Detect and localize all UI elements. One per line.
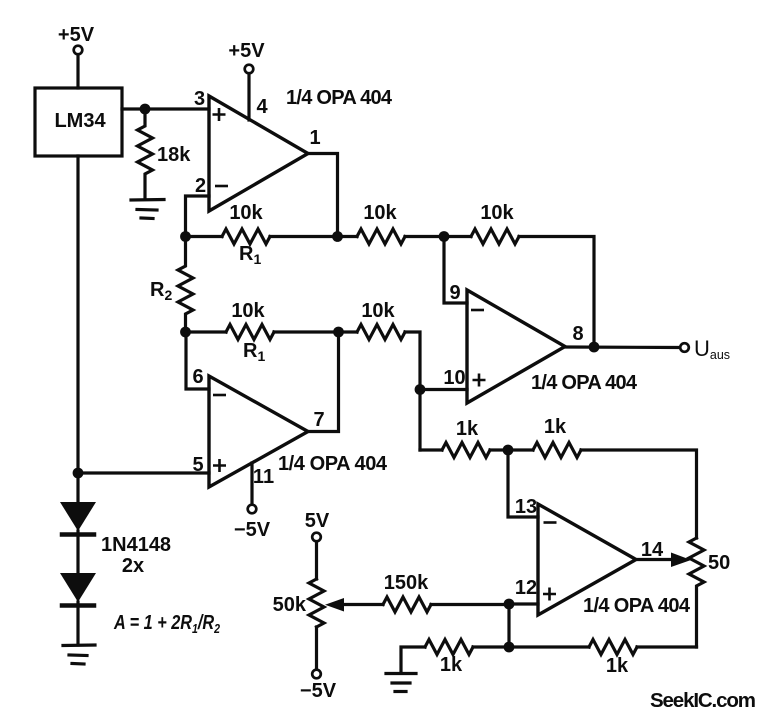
ground below diodes [63, 645, 95, 664]
svg-text:10k: 10k [231, 300, 265, 322]
svg-text:6: 6 [192, 366, 203, 388]
wire 150k to pin 12 node [431, 603, 509, 606]
potentiometer 50k element [309, 579, 324, 627]
svg-text:13: 13 [515, 496, 537, 518]
wire row3 left [420, 448, 442, 451]
node junction row2 (U1B feedback) [333, 327, 344, 338]
svg-text:11: 11 [253, 466, 274, 488]
svg-text:5V: 5V [305, 510, 330, 532]
svg-text:1/4 OPA 404: 1/4 OPA 404 [278, 453, 388, 475]
power terminal -5V (U1B pin 11) [248, 505, 257, 514]
wire row2 mid [274, 330, 357, 333]
wire U1C pin 9 stub [444, 237, 467, 304]
node junction row1 right (pin 9 net) [439, 231, 450, 242]
wire 150k to wiper arrow [343, 603, 383, 606]
diode D2 1N4148 [60, 573, 96, 645]
power terminal 5V (pot 50k top) [312, 533, 321, 542]
svg-text:1k: 1k [606, 655, 629, 677]
resistor 10k (U1C feedback) [471, 229, 519, 244]
svg-text:2x: 2x [122, 555, 144, 577]
svg-text:4: 4 [256, 96, 268, 118]
svg-text:SeekIC.com: SeekIC.com [650, 689, 756, 712]
wire row4 right to pot 50 bottom [637, 645, 697, 648]
wire pin12 node down to row4 [507, 604, 510, 647]
svg-text:1k: 1k [440, 654, 463, 676]
svg-text:R1: R1 [243, 340, 265, 364]
wire pot 50k bottom [315, 627, 318, 670]
wire row1 mid [270, 235, 357, 238]
node junction U1C output [589, 342, 600, 353]
ground below 18k [131, 200, 164, 219]
wire U1A output pin 1 to feedback node [308, 154, 338, 237]
svg-text:R2: R2 [150, 279, 172, 303]
svg-text:1/4 OPA 404: 1/4 OPA 404 [286, 87, 393, 109]
wire feedback resistor to U1C output [519, 237, 594, 348]
resistor 1k (row3 first) [442, 443, 490, 458]
svg-text:10k: 10k [361, 300, 395, 322]
op-amp U1B [209, 376, 308, 487]
diode D1 1N4148 [60, 502, 96, 573]
svg-text:9: 9 [449, 282, 460, 304]
wire U1B pin 5 to diode rail [78, 471, 209, 474]
wire row2 left [186, 330, 227, 333]
svg-text:LM34: LM34 [54, 110, 106, 132]
output terminal Uaus [680, 343, 689, 352]
svg-text:10k: 10k [229, 202, 263, 224]
wire U1A pin 2 stub [186, 196, 210, 237]
wire U1B output pin 7 feedback [308, 332, 339, 432]
svg-text:1: 1 [309, 127, 320, 149]
node junction pin 10 [415, 384, 426, 395]
resistor R2 [178, 237, 193, 333]
resistor 1k (row4 first) [425, 640, 473, 655]
node junction row2 left [180, 327, 191, 338]
wire U1C output pin 8 to Uaus [565, 345, 680, 349]
wire +5V terminal to LM34 top [76, 55, 79, 89]
wire U1B pin 11 supply [250, 463, 253, 505]
wire row4 ground stub [401, 647, 425, 672]
svg-text:Uaus: Uaus [694, 336, 730, 362]
svg-text:R1: R1 [239, 243, 261, 267]
node junction row3 (pin 13 net) [503, 445, 514, 456]
svg-text:12: 12 [515, 577, 537, 599]
wire LM34 output to op-amp U1A pin 3 [122, 107, 209, 110]
node junction pin 12 / 150k [504, 599, 515, 610]
svg-text:10k: 10k [480, 202, 514, 224]
wire row3 to potentiometer 50 [581, 450, 697, 538]
resistor 10k (row2 second) [357, 325, 405, 340]
op-amp U1A [209, 96, 308, 211]
wire U1C pin 10 stub [420, 388, 467, 391]
wire U1D output pin 14 [636, 558, 674, 561]
resistor 150k [383, 597, 431, 612]
svg-text:A = 1 + 2R1/R2: A = 1 + 2R1/R2 [113, 612, 220, 636]
svg-text:7: 7 [313, 409, 324, 431]
power terminal +5V (LM34 supply) [74, 46, 83, 55]
node junction row1 left [180, 231, 191, 242]
svg-text:+5V: +5V [58, 24, 95, 46]
svg-text:10: 10 [443, 367, 465, 389]
arrow U1D output to potentiometer 50 wiper [671, 553, 691, 568]
op-amp U1D [538, 504, 636, 615]
wire row1 left [186, 235, 223, 238]
svg-text:1/4 OPA 404: 1/4 OPA 404 [583, 595, 691, 617]
wire pin 4 supply [247, 74, 250, 121]
svg-text:50: 50 [708, 552, 730, 574]
svg-text:1/4 OPA 404: 1/4 OPA 404 [531, 372, 638, 394]
node junction row1 (U1A feedback) [332, 231, 343, 242]
svg-text:14: 14 [641, 539, 664, 561]
wire row2 to pin10 rail [405, 332, 420, 450]
svg-text:1k: 1k [544, 416, 567, 438]
arrow 150k to potentiometer 50k wiper [325, 598, 344, 612]
resistor 1k (row4 second) [589, 640, 637, 655]
svg-text:1k: 1k [456, 418, 479, 440]
svg-text:−5V: −5V [300, 680, 337, 702]
svg-text:2: 2 [195, 175, 206, 197]
wire U1D pin 13 stub [508, 450, 538, 517]
svg-text:+5V: +5V [228, 40, 265, 62]
sensor LM34 [35, 88, 122, 156]
wire pot 50k top [315, 542, 318, 580]
svg-text:150k: 150k [384, 572, 429, 594]
wire U1B pin 6 stub [186, 332, 209, 389]
node junction LM34 output / 18k top [140, 104, 151, 115]
ground row4 [386, 674, 416, 692]
svg-text:3: 3 [194, 88, 205, 110]
node junction pin 5 / diode rail [73, 468, 84, 479]
resistor R1 10k (row1) [222, 229, 270, 244]
node junction row4 [504, 642, 515, 653]
wire row4 mid [473, 645, 589, 648]
svg-text:1N4148: 1N4148 [101, 534, 171, 556]
op-amp U1C [467, 290, 565, 403]
wire U1D pin 12 stub [509, 602, 538, 605]
resistor R1 10k (row2) [226, 325, 274, 340]
resistor 18k [138, 109, 153, 198]
svg-text:18k: 18k [157, 144, 191, 166]
svg-text:10k: 10k [363, 202, 397, 224]
potentiometer 50 element [689, 538, 704, 647]
resistor 10k (row1 second) [357, 229, 405, 244]
wire LM34 bottom rail [76, 156, 79, 502]
svg-text:−5V: −5V [234, 519, 271, 541]
svg-text:8: 8 [572, 323, 583, 345]
power terminal -5V (pot 50k bottom) [312, 670, 321, 679]
power terminal +5V (U1A pin 4) [245, 65, 254, 74]
svg-text:50k: 50k [273, 594, 307, 616]
wire row1 to third resistor [405, 235, 471, 238]
resistor 1k (U1D feedback) [533, 443, 581, 458]
wire row3 mid [490, 448, 533, 451]
